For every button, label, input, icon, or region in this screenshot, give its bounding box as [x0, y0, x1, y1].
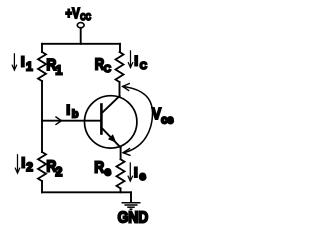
wire: ground stem — [130, 192, 132, 202]
resistor Rc — [116, 52, 124, 82]
wire: Vcc stem — [80, 28, 82, 44]
svg-text:I: I — [66, 102, 70, 118]
label Re — [94, 160, 111, 179]
label +Vcc — [65, 5, 91, 23]
Vcc terminal — [77, 23, 84, 28]
wire: Re bottom lead — [120, 188, 122, 192]
svg-text:2: 2 — [26, 160, 33, 174]
svg-text:I: I — [21, 155, 25, 171]
wire: collector wire — [119, 82, 121, 97]
transistor Q1 body circle — [85, 96, 137, 148]
svg-text:C: C — [104, 64, 111, 75]
current arrow I2 — [15, 155, 19, 173]
resistor Re — [117, 159, 125, 188]
svg-text:CC: CC — [80, 12, 91, 23]
transistor emitter arrowhead — [108, 134, 116, 142]
transistor emitter line — [101, 127, 120, 147]
current arrow I1 — [12, 54, 16, 70]
svg-text:2: 2 — [55, 165, 62, 179]
label R1 — [46, 57, 62, 77]
label R2 — [46, 159, 62, 179]
transistor base bar — [100, 105, 103, 134]
wire: bottom rail — [42, 191, 131, 193]
svg-text:I: I — [134, 53, 138, 69]
resistor R2 — [38, 152, 46, 181]
svg-text:b: b — [72, 108, 79, 120]
svg-text:C: C — [140, 61, 147, 72]
resistor R1 — [38, 52, 46, 81]
Vce arc upper arrow — [123, 84, 153, 111]
ground symbol — [122, 203, 139, 209]
svg-text:I: I — [21, 55, 25, 71]
wire: R2 bottom lead — [41, 181, 43, 192]
svg-text:I: I — [134, 164, 138, 180]
label Ie — [134, 164, 146, 183]
svg-text:R: R — [95, 56, 105, 73]
label I2 — [21, 155, 33, 174]
svg-text:1: 1 — [55, 63, 62, 77]
svg-text:GND: GND — [118, 209, 149, 226]
svg-text:R: R — [94, 160, 104, 177]
svg-text:1: 1 — [26, 59, 33, 73]
label Ib — [66, 102, 79, 121]
wire: right rail upper — [119, 44, 121, 52]
wire: emitter wire — [120, 148, 122, 160]
svg-text:e: e — [104, 165, 111, 179]
wire: left rail middle — [41, 81, 43, 152]
svg-text:e: e — [139, 169, 146, 183]
transistor collector line — [101, 96, 119, 113]
svg-text:+V: +V — [65, 5, 79, 22]
current arrow Ic — [128, 51, 132, 68]
wire: left rail upper — [41, 44, 43, 52]
Vce arc lower arrow — [123, 111, 153, 155]
label Vce — [152, 106, 173, 126]
current arrow Ie — [128, 163, 132, 181]
wire: top rail — [42, 43, 120, 45]
label I1 — [21, 55, 33, 74]
label Rc — [95, 56, 111, 75]
wire: base wire — [42, 120, 101, 122]
label Ic — [134, 53, 147, 72]
svg-text:ce: ce — [161, 114, 173, 126]
arrow Ib on base wire — [56, 117, 62, 124]
